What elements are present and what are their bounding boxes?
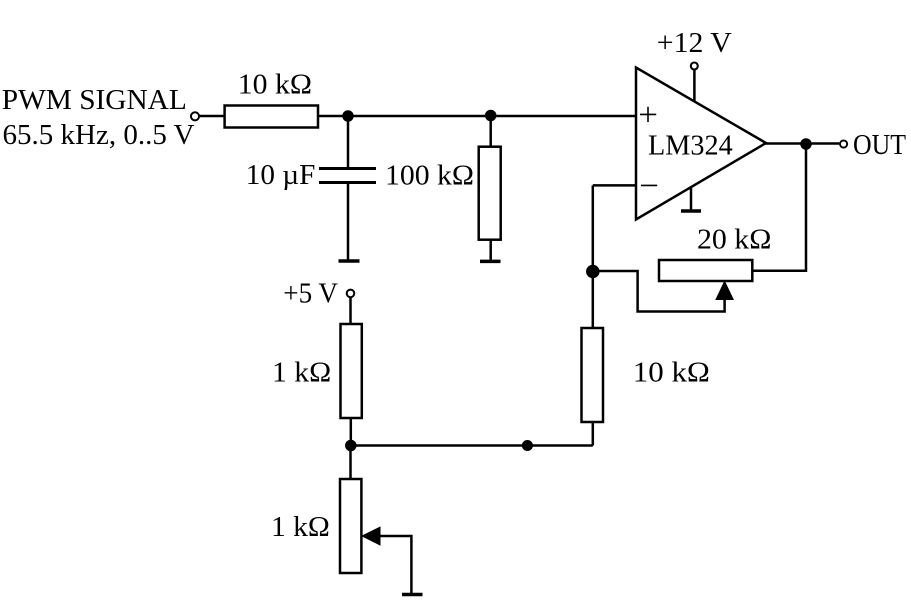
pin plus sign bbox=[640, 107, 656, 122]
wire wiper path bbox=[593, 271, 725, 312]
wire bbox=[347, 184, 350, 260]
node junction C bbox=[587, 266, 598, 277]
node +5V terminal bbox=[347, 290, 355, 298]
wire wiper to ground bbox=[379, 536, 412, 593]
potentiometer R3 20 kOhm bbox=[659, 260, 752, 281]
svg-text:1 kΩ: 1 kΩ bbox=[271, 511, 330, 543]
svg-text:65.5 kHz, 0..5 V: 65.5 kHz, 0..5 V bbox=[3, 119, 195, 151]
op-amp U1 LM324 triangle bbox=[636, 68, 766, 220]
wire bbox=[199, 115, 225, 118]
resistor R5 1 kOhm vertical bbox=[341, 324, 362, 418]
resistor R1 10 kOhm horizontal bbox=[225, 106, 318, 128]
wire minus input bbox=[593, 184, 636, 187]
node IN terminal bbox=[191, 112, 199, 120]
svg-text:10 kΩ: 10 kΩ bbox=[633, 357, 710, 389]
wire bbox=[592, 422, 595, 446]
wiper arrow R6 bbox=[362, 527, 380, 545]
wire bottom horizontal bbox=[351, 444, 593, 447]
ground bbox=[480, 260, 501, 264]
wiper arrow R3 bbox=[716, 282, 733, 300]
wire bbox=[318, 115, 636, 118]
potentiometer R6 1 kOhm bbox=[340, 479, 361, 573]
svg-text:+12 V: +12 V bbox=[657, 27, 732, 59]
wire bbox=[489, 116, 492, 148]
wire bbox=[489, 240, 492, 260]
svg-text:OUT: OUT bbox=[853, 129, 906, 161]
resistor R2 100 kOhm vertical bbox=[479, 147, 501, 240]
node +12V terminal bbox=[691, 63, 698, 70]
wire bbox=[349, 446, 352, 480]
resistor R4 10 kOhm vertical bbox=[582, 328, 604, 422]
wire bbox=[693, 70, 696, 102]
svg-text:10 kΩ: 10 kΩ bbox=[238, 68, 312, 100]
node junction E bbox=[346, 441, 355, 450]
wire opamp ground stub bbox=[690, 187, 693, 210]
node junction A bbox=[344, 112, 353, 121]
svg-text:1 kΩ: 1 kΩ bbox=[272, 357, 331, 389]
wire bbox=[349, 297, 352, 324]
svg-text:+5 V: +5 V bbox=[283, 277, 338, 309]
ground bbox=[681, 209, 701, 213]
svg-text:20 kΩ: 20 kΩ bbox=[697, 224, 771, 256]
node OUT terminal bbox=[840, 140, 847, 147]
svg-text:PWM SIGNAL: PWM SIGNAL bbox=[2, 84, 187, 116]
wire inverting node vertical bbox=[592, 185, 595, 328]
svg-text:100 kΩ: 100 kΩ bbox=[385, 160, 474, 192]
wire bbox=[350, 418, 353, 446]
pin minus sign bbox=[641, 184, 657, 186]
node junction OUT bbox=[802, 140, 811, 149]
wire feedback right bbox=[752, 144, 806, 271]
wire output bbox=[764, 142, 839, 145]
ground bbox=[339, 259, 360, 263]
node junction D bbox=[523, 441, 532, 450]
capacitor C1 10 uF bbox=[319, 169, 376, 183]
wire bbox=[347, 116, 350, 168]
node junction B bbox=[486, 111, 495, 120]
ground bbox=[402, 593, 423, 597]
svg-text:LM324: LM324 bbox=[648, 130, 733, 162]
svg-text:10 µF: 10 µF bbox=[246, 159, 316, 191]
